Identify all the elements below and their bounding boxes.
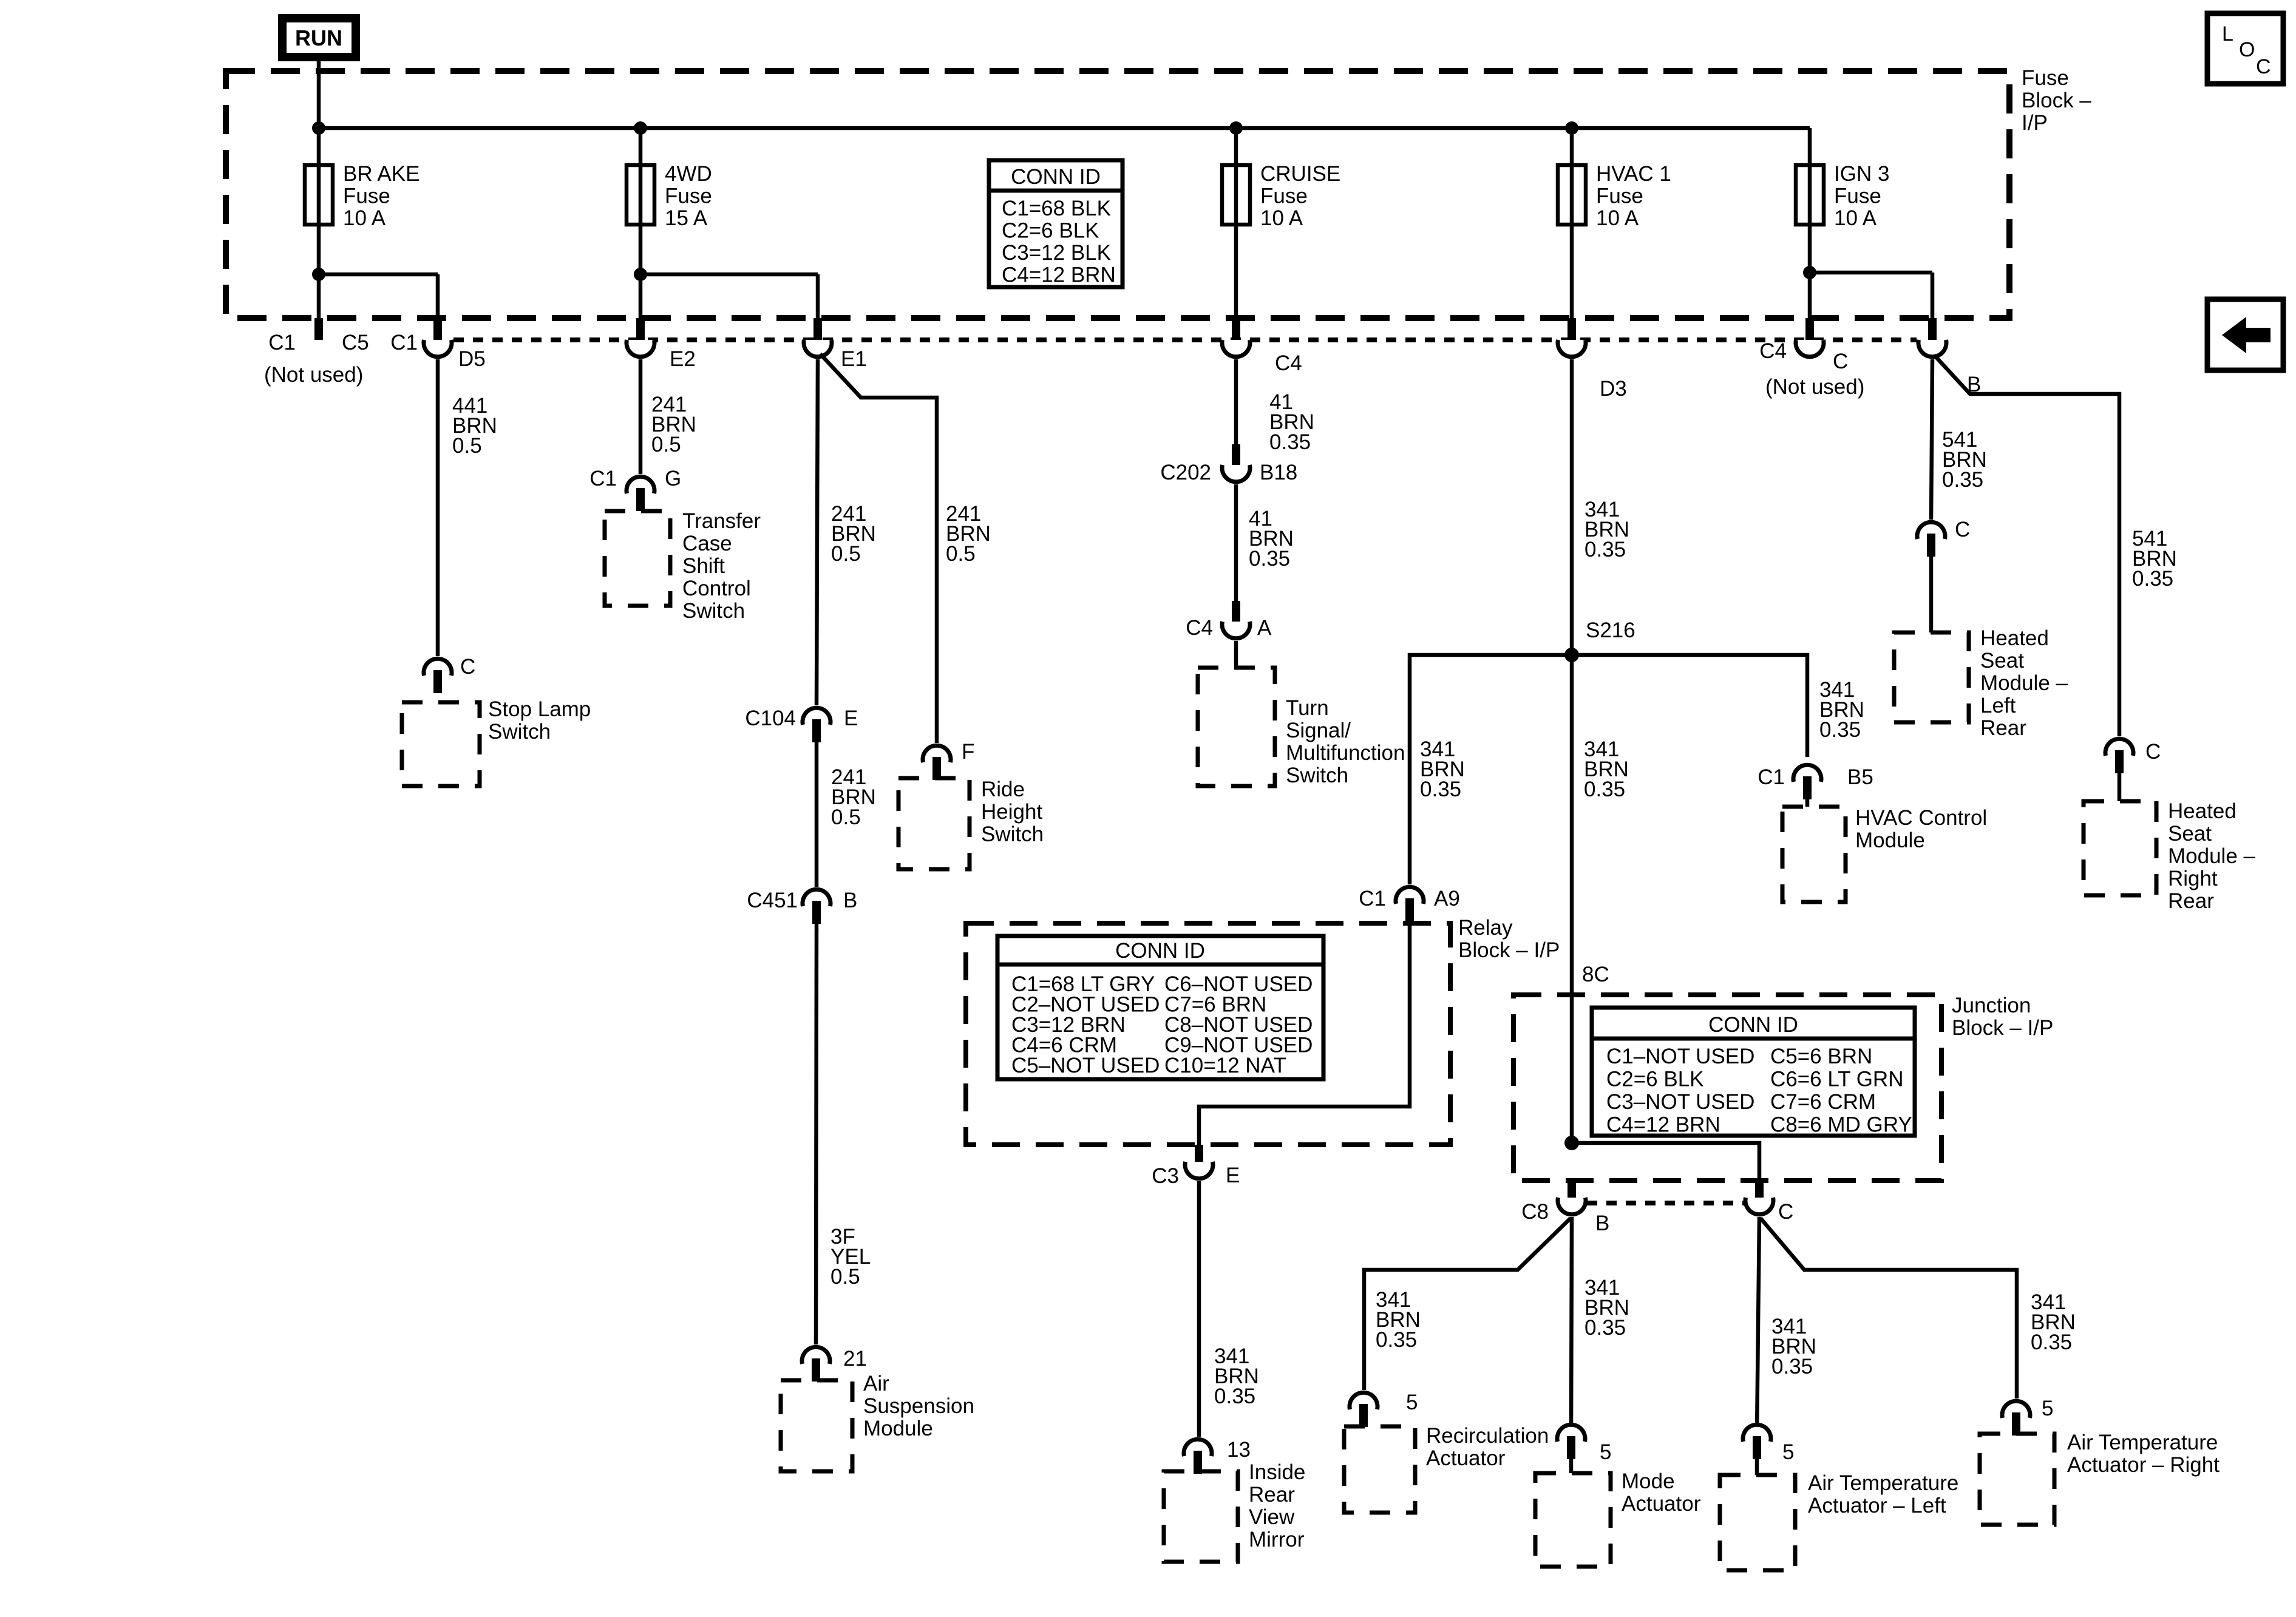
svg-text:C1: C1 — [1359, 887, 1386, 910]
svg-text:Module: Module — [863, 1417, 933, 1440]
svg-text:BR AKE: BR AKE — [343, 162, 419, 186]
svg-text:0.5: 0.5 — [830, 1265, 860, 1289]
svg-text:5: 5 — [1782, 1440, 1794, 1464]
svg-text:C: C — [1778, 1200, 1793, 1224]
svg-text:C202: C202 — [1160, 461, 1211, 484]
svg-text:View: View — [1249, 1505, 1295, 1529]
svg-text:Rear: Rear — [1249, 1483, 1295, 1507]
svg-text:Block – I/P: Block – I/P — [1952, 1016, 2053, 1040]
svg-text:C: C — [1955, 518, 1970, 541]
svg-text:0.35: 0.35 — [1269, 430, 1311, 454]
svg-text:C: C — [1833, 350, 1848, 373]
svg-text:B: B — [843, 889, 857, 912]
svg-text:G: G — [665, 467, 681, 490]
svg-text:E1: E1 — [841, 347, 867, 371]
svg-text:Block –: Block – — [2022, 89, 2091, 112]
svg-text:13: 13 — [1227, 1438, 1251, 1462]
svg-text:10 A: 10 A — [1596, 206, 1639, 230]
svg-text:C1: C1 — [589, 467, 617, 490]
svg-text:C3–NOT USED: C3–NOT USED — [1606, 1090, 1754, 1114]
svg-text:L: L — [2222, 22, 2233, 46]
svg-text:C4=12 BRN: C4=12 BRN — [1606, 1113, 1720, 1137]
svg-text:0.35: 0.35 — [1584, 538, 1626, 561]
svg-text:Control: Control — [682, 577, 751, 600]
svg-text:C1: C1 — [268, 331, 296, 354]
svg-text:Stop Lamp: Stop Lamp — [488, 697, 591, 721]
svg-text:Air Temperature: Air Temperature — [2067, 1431, 2218, 1454]
svg-text:10 A: 10 A — [1834, 206, 1877, 230]
svg-text:C3: C3 — [1152, 1164, 1179, 1188]
svg-text:B18: B18 — [1260, 461, 1297, 484]
svg-text:S216: S216 — [1586, 619, 1635, 642]
svg-text:21: 21 — [843, 1347, 867, 1371]
svg-text:IGN 3: IGN 3 — [1834, 162, 1889, 186]
svg-text:C1–NOT USED: C1–NOT USED — [1606, 1045, 1754, 1068]
svg-text:Suspension: Suspension — [863, 1394, 974, 1418]
svg-text:C4: C4 — [1759, 339, 1787, 363]
svg-text:(Not used): (Not used) — [1765, 375, 1864, 399]
svg-text:Fuse: Fuse — [665, 185, 712, 208]
svg-text:Switch: Switch — [1286, 764, 1348, 787]
svg-text:A: A — [1257, 616, 1272, 640]
svg-text:8C: 8C — [1582, 963, 1609, 986]
svg-text:Air: Air — [863, 1372, 889, 1395]
svg-text:Air Temperature: Air Temperature — [1808, 1471, 1958, 1495]
svg-text:CONN ID: CONN ID — [1708, 1013, 1798, 1037]
svg-text:Recirculation: Recirculation — [1426, 1424, 1549, 1448]
svg-text:F: F — [962, 740, 974, 764]
svg-text:5: 5 — [2042, 1397, 2053, 1420]
svg-text:C4: C4 — [1275, 351, 1302, 375]
svg-text:E: E — [1226, 1164, 1240, 1187]
svg-text:0.5: 0.5 — [946, 542, 976, 566]
svg-text:Heated: Heated — [2168, 799, 2237, 823]
svg-text:0.35: 0.35 — [1771, 1355, 1813, 1378]
svg-text:0.35: 0.35 — [1584, 778, 1625, 801]
svg-text:Transfer: Transfer — [682, 509, 761, 533]
svg-text:Signal/: Signal/ — [1286, 719, 1351, 742]
svg-text:C2=6 BLK: C2=6 BLK — [1606, 1068, 1704, 1091]
svg-text:0.35: 0.35 — [1942, 468, 1983, 492]
svg-text:0.35: 0.35 — [1819, 718, 1861, 742]
svg-text:15 A: 15 A — [665, 206, 708, 230]
svg-text:HVAC 1: HVAC 1 — [1596, 162, 1671, 186]
svg-text:CONN ID: CONN ID — [1115, 939, 1205, 963]
svg-text:Seat: Seat — [1980, 649, 2024, 673]
svg-text:B: B — [1595, 1212, 1609, 1235]
svg-text:C8: C8 — [1521, 1200, 1549, 1224]
svg-text:Module: Module — [1855, 829, 1925, 852]
svg-text:Seat: Seat — [2168, 822, 2212, 846]
svg-text:Turn: Turn — [1286, 696, 1329, 720]
svg-text:Case: Case — [682, 532, 732, 555]
svg-text:Actuator – Right: Actuator – Right — [2067, 1453, 2220, 1477]
svg-text:Module –: Module – — [1980, 671, 2068, 695]
svg-text:C10=12 NAT: C10=12 NAT — [1164, 1054, 1286, 1077]
svg-text:C104: C104 — [745, 707, 796, 730]
svg-text:Switch: Switch — [488, 720, 551, 744]
svg-text:(Not used): (Not used) — [264, 363, 363, 387]
svg-text:C5–NOT USED: C5–NOT USED — [1011, 1054, 1160, 1077]
svg-text:C7=6 CRM: C7=6 CRM — [1770, 1090, 1876, 1114]
svg-text:5: 5 — [1600, 1440, 1611, 1464]
svg-text:C4: C4 — [1186, 616, 1213, 640]
svg-text:Fuse: Fuse — [1260, 185, 1308, 208]
svg-text:Fuse: Fuse — [2022, 66, 2069, 90]
svg-text:Module –: Module – — [2168, 844, 2256, 868]
svg-text:C1=68 BLK: C1=68 BLK — [1002, 197, 1111, 220]
svg-text:0.5: 0.5 — [452, 434, 482, 458]
svg-text:E2: E2 — [670, 347, 696, 371]
svg-text:C1: C1 — [390, 331, 418, 354]
svg-text:0.35: 0.35 — [1376, 1328, 1417, 1352]
svg-text:Fuse: Fuse — [1596, 185, 1643, 208]
svg-text:0.5: 0.5 — [831, 805, 861, 829]
svg-text:Junction: Junction — [1952, 994, 2031, 1017]
svg-text:Actuator – Left: Actuator – Left — [1808, 1494, 1946, 1517]
svg-text:Fuse: Fuse — [1834, 185, 1881, 208]
svg-text:Mirror: Mirror — [1249, 1528, 1305, 1551]
svg-text:0.5: 0.5 — [831, 542, 861, 566]
svg-text:Shift: Shift — [682, 554, 725, 578]
svg-text:D3: D3 — [1600, 377, 1627, 401]
svg-text:10 A: 10 A — [343, 206, 386, 230]
svg-text:C3=12 BLK: C3=12 BLK — [1002, 241, 1111, 265]
svg-text:C5: C5 — [342, 331, 369, 354]
svg-text:Actuator: Actuator — [1622, 1492, 1701, 1516]
svg-text:A9: A9 — [1434, 887, 1460, 910]
svg-text:E: E — [844, 707, 858, 730]
svg-text:Heated: Heated — [1980, 626, 2049, 650]
svg-text:Switch: Switch — [981, 822, 1044, 846]
svg-text:0.35: 0.35 — [1584, 1316, 1626, 1340]
svg-text:I/P: I/P — [2022, 111, 2048, 135]
svg-text:5: 5 — [1406, 1391, 1418, 1414]
svg-text:C4=12 BRN: C4=12 BRN — [1002, 263, 1116, 287]
svg-text:0.35: 0.35 — [1249, 547, 1290, 571]
svg-text:O: O — [2239, 38, 2255, 61]
svg-text:Rear: Rear — [2168, 889, 2214, 913]
svg-text:CRUISE: CRUISE — [1260, 162, 1340, 186]
svg-text:HVAC Control: HVAC Control — [1855, 806, 1987, 830]
svg-text:RUN: RUN — [295, 25, 342, 50]
svg-text:Right: Right — [2168, 867, 2218, 890]
svg-text:0.35: 0.35 — [1214, 1385, 1255, 1408]
svg-text:0.35: 0.35 — [2031, 1331, 2072, 1354]
svg-text:Relay: Relay — [1458, 916, 1513, 940]
svg-text:B5: B5 — [1847, 765, 1873, 789]
svg-text:Left: Left — [1980, 694, 2016, 717]
svg-text:0.35: 0.35 — [1420, 778, 1461, 801]
svg-text:Actuator: Actuator — [1426, 1446, 1506, 1470]
svg-text:CONN ID: CONN ID — [1011, 165, 1101, 189]
svg-text:C1: C1 — [1758, 765, 1785, 789]
svg-text:C2=6 BLK: C2=6 BLK — [1002, 219, 1099, 243]
svg-text:C8=6 MD GRY: C8=6 MD GRY — [1770, 1113, 1912, 1137]
svg-text:C: C — [2145, 740, 2161, 764]
svg-text:4WD: 4WD — [665, 162, 712, 186]
svg-text:0.35: 0.35 — [2132, 567, 2173, 591]
svg-text:Block – I/P: Block – I/P — [1458, 938, 1560, 962]
svg-text:D5: D5 — [458, 347, 486, 371]
svg-text:0.5: 0.5 — [651, 433, 681, 456]
svg-text:Switch: Switch — [682, 599, 745, 623]
svg-text:Fuse: Fuse — [343, 185, 390, 208]
svg-text:Multifunction: Multifunction — [1286, 741, 1405, 765]
svg-text:Mode: Mode — [1622, 1470, 1675, 1493]
svg-text:Ride: Ride — [981, 778, 1025, 801]
svg-text:C5=6 BRN: C5=6 BRN — [1770, 1045, 1872, 1068]
svg-text:10 A: 10 A — [1260, 206, 1303, 230]
svg-text:Height: Height — [981, 800, 1042, 824]
svg-text:C6=6 LT GRN: C6=6 LT GRN — [1770, 1068, 1904, 1091]
svg-text:C451: C451 — [747, 889, 798, 912]
svg-text:C: C — [460, 655, 475, 679]
svg-text:B: B — [1967, 373, 1981, 396]
svg-text:C: C — [2256, 55, 2271, 78]
svg-text:Rear: Rear — [1980, 716, 2026, 740]
svg-text:Inside: Inside — [1249, 1460, 1305, 1484]
